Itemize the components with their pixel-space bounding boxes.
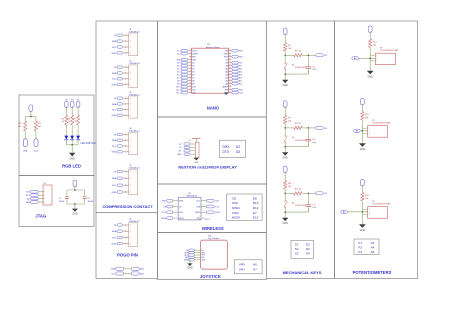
svg-text:10k: 10k — [288, 186, 291, 188]
svg-text:NEXTION nx3224t024 DISPLAY: NEXTION nx3224t024 DISPLAY — [178, 164, 237, 169]
svg-text:P2: P2 — [358, 245, 362, 249]
wire — [302, 54, 316, 56]
svg-text:0.1u: 0.1u — [312, 207, 316, 209]
svg-text:4: 4 — [130, 192, 131, 194]
table potentiometer nets — [354, 239, 379, 254]
section box POTENTIOMETERS — [335, 21, 418, 279]
pin 1 — [125, 224, 126, 225]
wire — [361, 120, 363, 143]
nano pin L2 D0/RX — [189, 53, 192, 55]
wire — [38, 198, 43, 200]
wire — [123, 243, 125, 245]
switch S2 COM-10443 — [284, 128, 286, 135]
svg-text:D7: D7 — [253, 211, 257, 215]
pin 3 — [125, 237, 126, 238]
resistor R6 — [71, 115, 74, 125]
svg-text:Arduino Nano: Arduino Nano — [206, 46, 220, 49]
nano pin R10 A2 — [229, 77, 232, 79]
svg-text:1k: 1k — [299, 189, 301, 191]
svg-text:GND: GND — [72, 213, 78, 216]
svg-text:13: 13 — [189, 85, 191, 87]
svg-text:1: 1 — [130, 67, 131, 69]
svg-text:D3: D3 — [306, 247, 310, 251]
svg-text:NANO: NANO — [207, 106, 220, 111]
svg-text:1k: 1k — [62, 121, 64, 123]
svg-text:24: 24 — [229, 67, 231, 69]
pin 1 — [125, 171, 126, 172]
svg-text:DTX: DTX — [223, 150, 230, 154]
power flag (pot 1) — [368, 26, 372, 33]
svg-text:15: 15 — [189, 91, 191, 93]
svg-text:23: 23 — [229, 70, 231, 72]
pin 4 — [125, 191, 126, 192]
svg-text:1: 1 — [130, 134, 131, 136]
svg-text:29: 29 — [229, 52, 231, 54]
svg-text:GND: GND — [112, 53, 117, 55]
svg-text:26: 26 — [229, 61, 231, 63]
svg-text:P3: P3 — [358, 250, 362, 254]
pin 1 — [125, 35, 126, 36]
svg-text:A3.1: A3.1 — [239, 76, 243, 79]
pin 2 — [125, 178, 126, 179]
pin 4 — [125, 84, 126, 85]
svg-text:A2.1: A2.1 — [239, 79, 243, 82]
wire — [24, 131, 26, 139]
svg-text:SDA: SDA — [112, 103, 117, 106]
svg-text:3: 3 — [130, 237, 131, 239]
svg-text:100nF: 100nF — [88, 201, 94, 203]
svg-text:RST.1: RST.1 — [239, 56, 244, 58]
section box POGO PIN — [96, 213, 158, 279]
wire — [123, 114, 125, 116]
svg-text:VRY: VRY — [239, 268, 245, 272]
svg-text:GND: GND — [368, 75, 374, 78]
nano pin R2 GND — [229, 53, 232, 55]
section box JOYSTICK — [158, 233, 267, 280]
svg-text:A6.1: A6.1 — [239, 67, 243, 70]
svg-text:0.1u: 0.1u — [312, 69, 316, 71]
svg-text:D1.1: D1.1 — [177, 50, 181, 52]
svg-text:D10: D10 — [253, 216, 259, 220]
svg-text:WIRELESS: WIRELESS — [202, 226, 224, 231]
svg-text:2: 2 — [369, 133, 370, 135]
svg-text:11: 11 — [189, 79, 191, 81]
svg-text:D12: D12 — [253, 206, 259, 210]
svg-text:1: 1 — [130, 98, 131, 100]
svg-text:10k: 10k — [288, 120, 291, 122]
table wireless nets — [227, 194, 263, 220]
wire — [71, 125, 73, 136]
svg-text:D4: D4 — [306, 252, 310, 256]
nano pin L6 D3 — [189, 65, 192, 67]
wire — [123, 191, 125, 193]
svg-text:RGB LED: RGB LED — [62, 163, 81, 168]
ground (nano) — [224, 93, 228, 95]
svg-text:MOSI: MOSI — [179, 218, 184, 220]
svg-text:GND: GND — [112, 115, 117, 117]
svg-text:A1.1: A1.1 — [239, 82, 243, 85]
svg-text:GND: GND — [184, 260, 189, 262]
svg-text:4: 4 — [130, 152, 131, 154]
nano pin L3 RST — [189, 56, 192, 58]
power flag (key 1) — [283, 28, 287, 35]
nano pin R6 A6 — [229, 65, 232, 67]
svg-text:D3: D3 — [236, 150, 240, 154]
svg-text:D7.1: D7.1 — [177, 77, 181, 79]
resistor R11 10k — [284, 181, 287, 189]
nano pin R11 A1 — [229, 80, 232, 82]
pin 3 — [125, 145, 126, 146]
net flag A4 — [354, 129, 361, 132]
svg-text:GND: GND — [70, 157, 76, 160]
svg-text:GND: GND — [177, 154, 182, 156]
wire — [302, 192, 316, 194]
wire — [123, 46, 125, 48]
net port SCL — [34, 139, 38, 147]
nano pin R14 3V3 — [229, 89, 232, 91]
ground (joystick) — [187, 263, 192, 266]
svg-text:GND: GND — [192, 59, 197, 61]
section box WIRELESS — [158, 184, 267, 233]
svg-text:3: 3 — [130, 79, 131, 81]
pin 3 — [125, 46, 126, 47]
pin 2 — [125, 72, 126, 73]
svg-text:GND: GND — [283, 84, 289, 87]
svg-text:VRX: VRX — [239, 262, 245, 266]
svg-text:COM-10443: COM-10443 — [295, 140, 307, 142]
wire — [123, 72, 125, 74]
switch S3 COM-10443 — [284, 193, 286, 200]
pin 2 — [125, 231, 126, 232]
LED D3 — [76, 136, 80, 140]
pin 1 — [125, 67, 126, 68]
switch S1 COM-10443 — [284, 55, 286, 62]
wire — [67, 189, 85, 191]
wire — [123, 52, 125, 54]
svg-text:DRX: DRX — [223, 145, 231, 149]
wire — [38, 201, 43, 203]
wire — [123, 103, 125, 105]
svg-text:SDA: SDA — [112, 40, 117, 43]
pin 4 — [125, 243, 126, 244]
ground (JTAG) — [72, 209, 78, 212]
svg-text:PT-2299 ADJP 9MM: PT-2299 ADJP 9MM — [372, 122, 390, 125]
net flag D4 — [316, 192, 324, 195]
pin 2 — [125, 140, 126, 141]
net flag D2 — [316, 54, 324, 57]
nano pin L1 D1/TX — [189, 50, 192, 52]
nano pin R5 A7 — [229, 62, 232, 64]
table joystick nets — [234, 260, 262, 274]
svg-text:MISO: MISO — [232, 206, 241, 210]
nano pin L4 GND — [189, 59, 192, 61]
svg-text:D8: D8 — [253, 196, 257, 200]
svg-text:A5: A5 — [371, 250, 375, 254]
svg-text:GND: GND — [112, 152, 117, 154]
svg-text:A5.1: A5.1 — [239, 70, 243, 73]
svg-text:D13: D13 — [253, 201, 259, 205]
svg-text:CSN: CSN — [196, 206, 201, 208]
capacitor C1 100nF — [65, 196, 69, 198]
svg-text:28: 28 — [229, 55, 231, 57]
ground (pot 2) — [359, 143, 366, 147]
power flag (key 3) — [283, 166, 287, 173]
svg-text:4: 4 — [130, 53, 131, 55]
net flag A5 — [341, 210, 348, 213]
power flag VCC (RGB left) — [29, 105, 33, 112]
wire — [284, 51, 286, 55]
svg-text:10k: 10k — [288, 48, 291, 50]
svg-text:16: 16 — [229, 91, 231, 93]
svg-text:JOYSTICK: JOYSTICK — [200, 274, 221, 279]
nano pin R8 A4 — [229, 71, 232, 73]
nano pin L9 D6 — [189, 74, 192, 76]
svg-text:A3: A3 — [371, 241, 375, 245]
svg-text:A4.1: A4.1 — [239, 73, 243, 76]
section box RGB LED — [19, 95, 94, 176]
svg-text:2: 2 — [369, 214, 370, 216]
svg-text:GND: GND — [360, 148, 366, 151]
wire — [38, 191, 43, 193]
svg-text:25: 25 — [229, 64, 231, 66]
svg-text:VIN.1: VIN.1 — [239, 50, 243, 52]
svg-text:SDA: SDA — [112, 230, 117, 233]
wire — [123, 184, 125, 186]
svg-text:3: 3 — [130, 146, 131, 148]
wire — [123, 78, 125, 80]
wire — [123, 109, 125, 111]
wire — [123, 230, 125, 232]
nano pin L12 D9 — [189, 83, 192, 85]
wire — [123, 151, 125, 153]
svg-text:1k: 1k — [299, 51, 301, 53]
svg-text:MECHANICAL KEYS: MECHANICAL KEYS — [283, 270, 322, 275]
pin 1 — [125, 134, 126, 135]
net flag D3 — [316, 126, 324, 129]
svg-text:SCK: SCK — [232, 201, 239, 205]
pin 3 — [125, 78, 126, 79]
wire — [77, 125, 79, 136]
wire — [361, 201, 363, 224]
svg-text:4: 4 — [130, 84, 131, 86]
nano pin R1 VIN — [229, 50, 232, 52]
svg-text:19: 19 — [229, 82, 231, 84]
wire — [71, 139, 73, 144]
wire — [284, 189, 286, 193]
svg-text:GND: GND — [112, 85, 117, 87]
svg-text:GND: GND — [112, 192, 117, 194]
LED D1 — [64, 136, 68, 140]
svg-text:D2.1: D2.1 — [177, 62, 181, 64]
svg-text:1: 1 — [130, 35, 131, 37]
nano pin L7 D4 — [189, 68, 192, 70]
svg-text:14: 14 — [189, 88, 191, 90]
svg-text:3: 3 — [130, 185, 131, 187]
svg-text:GND: GND — [187, 267, 193, 270]
wire — [284, 208, 286, 212]
svg-text:MISO: MISO — [195, 212, 200, 214]
svg-text:TDO: TDO — [26, 195, 31, 197]
wire — [123, 170, 125, 172]
svg-text:1k: 1k — [299, 123, 301, 125]
wire — [38, 194, 43, 196]
section box JTAG — [19, 176, 94, 227]
svg-text:LED RGB 5mm: LED RGB 5mm — [81, 143, 97, 145]
svg-text:D8.1: D8.1 — [177, 80, 181, 82]
pin 3 — [125, 109, 126, 110]
nano pin L13 D10 — [189, 86, 192, 88]
svg-text:SCK: SCK — [162, 212, 167, 214]
table display nets — [219, 140, 245, 157]
resistor R7 — [77, 115, 80, 125]
svg-text:COM-10443: COM-10443 — [295, 67, 307, 69]
wire — [25, 116, 36, 118]
svg-text:SDA: SDA — [112, 177, 117, 180]
svg-text:2: 2 — [130, 104, 131, 106]
nano pin R9 A3 — [229, 74, 232, 76]
capacitor C7 — [307, 193, 309, 204]
wire — [123, 224, 125, 226]
nano pin R4 5V — [229, 59, 232, 61]
svg-text:3: 3 — [130, 109, 131, 111]
svg-text:2: 2 — [130, 73, 131, 75]
svg-text:S1: S1 — [295, 242, 299, 246]
net flag A3 — [352, 57, 359, 60]
pin 3 — [125, 185, 126, 186]
nano pin L11 D8 — [189, 80, 192, 82]
svg-text:A6: A6 — [253, 262, 257, 266]
svg-text:CE: CE — [232, 196, 236, 200]
svg-text:D2: D2 — [306, 242, 310, 246]
svg-text:D3.1: D3.1 — [177, 65, 181, 67]
resistor R12 10k — [369, 39, 372, 48]
svg-text:2: 2 — [130, 41, 131, 43]
ground (display) — [194, 158, 199, 161]
wire — [77, 139, 79, 144]
svg-text:D9.1: D9.1 — [177, 83, 181, 85]
svg-text:10k: 10k — [365, 198, 368, 200]
svg-text:D1/TX: D1/TX — [192, 50, 198, 52]
svg-text:GND: GND — [179, 201, 184, 203]
capacitor C6 — [307, 128, 309, 139]
svg-text:10: 10 — [189, 76, 191, 78]
svg-text:D5.1: D5.1 — [177, 71, 181, 73]
wire — [302, 127, 316, 129]
svg-text:VCC: VCC — [196, 201, 201, 203]
net port SDA — [23, 139, 27, 147]
svg-text:GND: GND — [283, 222, 289, 225]
section box DISPLAY — [158, 117, 267, 184]
wire — [284, 143, 286, 147]
svg-text:POTENTIOMETERS: POTENTIOMETERS — [353, 270, 392, 275]
svg-text:SDA: SDA — [111, 268, 116, 271]
svg-text:10k: 10k — [365, 117, 368, 119]
svg-text:GND: GND — [224, 53, 229, 55]
svg-text:D10.1: D10.1 — [176, 86, 181, 88]
resistor R4 10k — [284, 43, 287, 51]
nano pin R7 A5 — [229, 68, 232, 70]
svg-text:JTAG: JTAG — [35, 213, 46, 218]
nano pin L14 D11 — [189, 89, 192, 91]
wire — [123, 97, 125, 99]
svg-text:A7: A7 — [253, 268, 257, 272]
svg-text:20: 20 — [229, 79, 231, 81]
svg-text:12: 12 — [189, 82, 191, 84]
capacitor C2 100nF — [83, 196, 87, 198]
ground (RGB LED) — [69, 153, 75, 157]
svg-text:4: 4 — [130, 115, 131, 117]
svg-text:10k: 10k — [373, 44, 376, 46]
wire — [65, 139, 67, 144]
svg-text:D6.1: D6.1 — [177, 74, 181, 76]
section box NANO — [158, 21, 267, 117]
nano pin R13 AREF — [229, 86, 232, 88]
svg-text:VIN: VIN — [225, 50, 229, 52]
svg-text:2: 2 — [130, 178, 131, 180]
svg-text:2: 2 — [376, 61, 377, 63]
LED D2 — [70, 136, 74, 140]
capacitor C5 — [307, 55, 309, 66]
svg-text:2: 2 — [130, 231, 131, 233]
svg-text:A7.1: A7.1 — [239, 64, 243, 67]
nano pin R12 A0 — [229, 83, 232, 85]
pin 4 — [125, 115, 126, 116]
svg-text:5V.2: 5V.2 — [239, 62, 242, 64]
svg-text:GND: GND — [112, 244, 117, 246]
svg-text:D2: D2 — [236, 145, 240, 149]
pin 2 — [125, 41, 126, 42]
pin 1 — [125, 98, 126, 99]
wire — [65, 125, 67, 136]
wire — [123, 66, 125, 68]
svg-text:P1: P1 — [358, 241, 362, 245]
ground (pot 3) — [359, 224, 366, 228]
nano pin L5 D2 — [189, 62, 192, 64]
nano pin L10 D7 — [189, 77, 192, 79]
pin 4 — [125, 52, 126, 53]
svg-text:SDA: SDA — [112, 139, 117, 142]
ground (key 2) — [282, 152, 288, 155]
wire — [123, 84, 125, 86]
svg-text:A4: A4 — [371, 245, 375, 249]
svg-text:PT-2299 ADJP 9MM: PT-2299 ADJP 9MM — [372, 203, 390, 206]
svg-text:D4.1: D4.1 — [177, 68, 181, 70]
section box MECHANICAL KEYS — [266, 21, 334, 279]
svg-text:D0/RX: D0/RX — [192, 53, 199, 55]
table mechanical keys nets — [291, 240, 314, 258]
resistor R9 10k — [284, 115, 287, 123]
power flag (pot 2) — [360, 98, 364, 105]
ground (pot 1) — [367, 71, 374, 75]
svg-text:21: 21 — [229, 76, 231, 78]
power flag (key 2) — [283, 101, 287, 108]
section box COMPRESSION CONTACT — [96, 21, 158, 213]
svg-text:AREF: AREF — [223, 85, 229, 88]
svg-text:S3: S3 — [295, 252, 299, 256]
svg-text:CSN: CSN — [232, 211, 239, 215]
svg-text:3: 3 — [130, 47, 131, 49]
svg-text:COM-10443: COM-10443 — [295, 205, 307, 207]
svg-text:1: 1 — [130, 171, 131, 173]
power flag (pot 3) — [360, 179, 364, 186]
wire — [123, 40, 125, 42]
svg-text:30: 30 — [229, 49, 231, 51]
wire — [284, 70, 286, 74]
svg-text:TDI: TDI — [27, 199, 31, 201]
svg-text:MOSI: MOSI — [161, 218, 167, 220]
ground (key 3) — [282, 218, 288, 221]
svg-text:22: 22 — [229, 73, 231, 75]
